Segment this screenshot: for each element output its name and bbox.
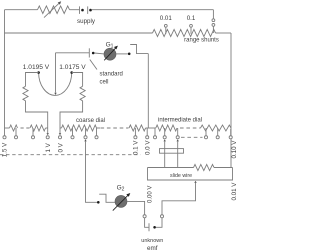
- intermediate tap 3 (wiper B): [177, 128, 179, 136]
- coarse dial dashed continuation 2: [101, 127, 129, 129]
- coarse dial wiper: [84, 139, 86, 141]
- svg-text:emf: emf: [147, 245, 158, 250]
- coarse tap 4: [72, 128, 74, 136]
- range shunt tap 0.1: [190, 24, 193, 27]
- wire supply to range-shunt selector: [92, 9, 214, 11]
- key K2 contact: [97, 201, 100, 204]
- svg-text:slide wire: slide wire: [170, 173, 192, 179]
- coarse tap 5 (wiper tap): [85, 128, 87, 136]
- svg-text:0.00 V: 0.00 V: [148, 186, 154, 203]
- svg-text:cell: cell: [100, 80, 109, 86]
- coarse resistor Rd: [129, 125, 146, 131]
- galvanometer G2: [115, 195, 127, 207]
- svg-text:intermediate dial: intermediate dial: [158, 118, 202, 124]
- std dial right tap arrow: [59, 133, 61, 135]
- svg-text:0.1 V: 0.1 V: [133, 140, 140, 155]
- svg-text:0.01: 0.01: [160, 15, 173, 22]
- key K2 arm: [99, 194, 115, 202]
- svg-text:1.0195 V: 1.0195 V: [23, 64, 50, 71]
- svg-text:0.1: 0.1: [187, 15, 196, 22]
- std dial right branch lower wire: [60, 101, 83, 128]
- rheostat (battery-circuit resistor): [38, 6, 70, 14]
- standard-cell dial arc: [39, 73, 72, 96]
- galvanometer G1: [104, 48, 116, 60]
- coarse tap 0.1V: [134, 128, 136, 136]
- wire left rail: [4, 10, 6, 128]
- unknown emf cell wires: [145, 218, 149, 227]
- intermediate tap 2 (wiper A): [164, 128, 166, 136]
- intermediate tap 4: [205, 128, 207, 136]
- wire top from rail to rheostat: [5, 9, 38, 11]
- dashed panel line: [0, 154, 141, 156]
- intermediate resistor Rb: [201, 125, 232, 131]
- intermediate wiper A: [163, 139, 165, 141]
- wire bus at y33 from left rail to range shunts: [5, 32, 153, 34]
- svg-text:G1: G1: [106, 41, 114, 49]
- svg-text:1.0175 V: 1.0175 V: [59, 64, 86, 71]
- intermediate taps dashed line: [181, 136, 203, 138]
- standard cell: [88, 48, 90, 57]
- svg-text:range shunts: range shunts: [184, 38, 219, 44]
- wire standard cell to galvanometer G1: [94, 52, 104, 55]
- coarse chain to std-dial left junction: [46, 127, 48, 129]
- svg-text:coarse dial: coarse dial: [76, 118, 105, 124]
- intermediate wiper shorting box: [160, 149, 184, 154]
- svg-text:0.0 V: 0.0 V: [145, 140, 152, 155]
- coarse chain end wire: [146, 127, 156, 129]
- coarse tap 6: [96, 128, 98, 136]
- supply battery cell 1: [79, 6, 81, 13]
- key K1 contact: [128, 53, 131, 56]
- coarse tap 0.0V: [146, 128, 148, 136]
- std dial resistor left: [23, 86, 28, 101]
- svg-text:unknown: unknown: [141, 238, 163, 244]
- std dial left tap arrow: [46, 133, 48, 135]
- svg-text:0 V: 0 V: [57, 142, 64, 152]
- coarse resistor Rb: [30, 125, 46, 131]
- std dial left branch lower wire: [26, 101, 48, 128]
- intermediate dial dashed continuation: [180, 127, 201, 129]
- standard-cell dial wiper: [55, 53, 57, 93]
- unknown emf terminal left: [143, 215, 146, 218]
- range shunts resistor: [153, 29, 216, 36]
- wire key K1 to dial junction: [147, 54, 149, 128]
- coarse tap 3: [32, 128, 34, 136]
- unknown emf terminal right: [160, 215, 163, 218]
- intermediate tap 1: [154, 128, 156, 136]
- svg-text:standard: standard: [100, 72, 123, 78]
- intermediate tap 5: [217, 128, 219, 136]
- coarse resistor Rc: [60, 127, 62, 129]
- wire G1 to key contact: [116, 53, 128, 55]
- coarse resistor Ra: [5, 127, 10, 129]
- key K1 arm: [130, 45, 148, 54]
- supply battery cell 2: [87, 6, 89, 13]
- wire wiper to standard cell: [56, 52, 90, 54]
- wire rheostat to supply: [70, 9, 80, 11]
- svg-text:0.10 V: 0.10 V: [231, 140, 238, 159]
- svg-text:G2: G2: [117, 184, 125, 192]
- intermediate wiper B: [176, 139, 178, 141]
- wire range shunts to right rail: [216, 32, 232, 34]
- svg-text:0.01 V: 0.01 V: [231, 182, 238, 201]
- slide wire box: [148, 168, 233, 181]
- range shunt selector contact x1: [212, 19, 215, 22]
- intermediate resistor Ra: [156, 125, 177, 131]
- leader line standard cell: [90, 60, 97, 70]
- svg-text:supply: supply: [77, 18, 96, 25]
- coarse tap 2: [15, 128, 17, 136]
- slide wire wiper: [194, 181, 196, 183]
- std dial right branch wire: [72, 73, 83, 87]
- intermediate tap 0.10V: [230, 129, 232, 136]
- wire right rail: [230, 33, 232, 168]
- svg-text:1 V: 1 V: [45, 142, 52, 152]
- std dial left branch wire: [26, 73, 39, 87]
- unknown emf cell: [148, 223, 150, 231]
- slide wire resistor: [194, 164, 215, 170]
- range shunt tap 0.01: [164, 24, 167, 27]
- coarse dial dashed continuation: [21, 127, 31, 129]
- coarse dial tap 1.5V: [4, 128, 6, 136]
- wire G2 to unknown emf terminal: [127, 201, 145, 214]
- std dial resistor right: [80, 86, 85, 101]
